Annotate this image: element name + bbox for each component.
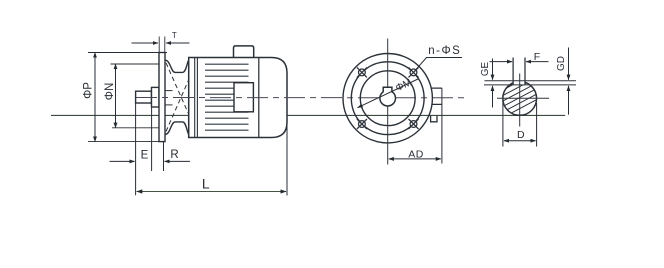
- svg-text:T: T: [172, 31, 177, 40]
- motor body: [189, 58, 287, 138]
- svg-text:ΦN: ΦN: [104, 83, 116, 100]
- spigot circle: [360, 71, 415, 126]
- shaft shoulder boss: [152, 87, 160, 107]
- svg-text:n-ΦS: n-ΦS: [428, 45, 461, 57]
- dimension phi-P: [83, 53, 168, 142]
- dimension D: [503, 100, 537, 147]
- svg-text:ΦP: ΦP: [83, 82, 95, 99]
- bell housing top outline: [166, 59, 191, 72]
- hub circle: [380, 90, 396, 106]
- nameplate: [234, 83, 253, 112]
- section horizontal centerline: [497, 97, 549, 99]
- dimension T: [132, 31, 190, 43]
- hidden cone dashed line 1: [166, 63, 195, 129]
- shaft (side view): [136, 91, 152, 103]
- dimension E: [110, 103, 152, 195]
- keyway flat line (GE lower / GD upper extension): [484, 84, 576, 86]
- svg-text:L: L: [202, 176, 210, 192]
- dimension R: [164, 142, 191, 171]
- bolt hole top-right: [409, 67, 419, 77]
- keyway slot (section): [513, 58, 525, 85]
- svg-text:E: E: [141, 150, 149, 162]
- flange plate extension lines for T: [159, 37, 165, 53]
- terminal box tab (front view, right side): [431, 88, 442, 104]
- section vertical centerline: [519, 74, 521, 127]
- main centerline (side + flange views): [136, 97, 468, 99]
- svg-text:F: F: [534, 51, 540, 63]
- hidden shaft stub lines behind flange: [166, 91, 173, 105]
- flange outer circle: [343, 53, 432, 142]
- flange vertical centerline: [387, 39, 389, 165]
- svg-text:GD: GD: [556, 56, 567, 71]
- svg-text:ΦM: ΦM: [394, 77, 413, 94]
- dimension phi-N: [104, 64, 159, 128]
- bell housing bottom outline: [166, 122, 191, 135]
- dimension L: [137, 121, 287, 196]
- hidden cone dashed line 2: [166, 66, 195, 132]
- svg-text:AD: AD: [408, 148, 424, 160]
- label phi-M with leader arrow: [358, 77, 420, 107]
- bolt circle: [351, 62, 424, 135]
- hub keyway notch: [383, 87, 392, 92]
- dimension F: [490, 51, 549, 63]
- label n-phi-S with leader: [415, 45, 462, 71]
- cooling fins: [205, 64, 249, 130]
- section hatching: [498, 64, 542, 120]
- small nub below baseline on flange: [431, 115, 437, 121]
- dimension AD: [389, 88, 442, 163]
- flange plate (side view): [159, 53, 165, 142]
- dimension GE: [480, 59, 492, 108]
- terminal box: [234, 46, 254, 58]
- svg-text:D: D: [517, 129, 525, 141]
- svg-text:GE: GE: [480, 61, 491, 76]
- shaft top tangent line (GE upper extension): [485, 80, 577, 82]
- dimension GD: [556, 48, 569, 115]
- shaft section circle: [503, 82, 537, 116]
- bolt hole bottom-left: [357, 119, 367, 129]
- bolt hole bottom-right: [409, 119, 419, 129]
- stator frame left line: [195, 58, 198, 138]
- svg-text:R: R: [170, 149, 178, 161]
- baseline (full-width horizontal line): [51, 114, 565, 116]
- fin section divider: [258, 58, 260, 138]
- bolt hole top-left: [357, 67, 367, 77]
